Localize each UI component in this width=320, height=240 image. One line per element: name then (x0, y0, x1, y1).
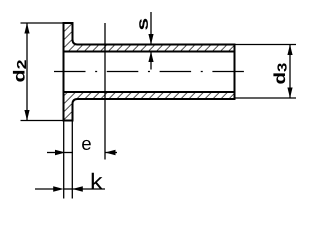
s arrow up (148, 52, 153, 63)
centerline (dash-dot axis) (54, 71, 244, 73)
d3 bottom extension line (236, 97, 297, 99)
flange left face across bore (63, 52, 65, 93)
d3 arrow up (287, 45, 292, 56)
e extension line vertical (104, 23, 106, 160)
d2 dimension line (26, 23, 28, 121)
label k (92, 173, 103, 189)
label s (139, 19, 148, 30)
rivet lower section (tube bottom wall + head flange bottom), hatched (64, 92, 235, 121)
rivet upper section (head flange top + tube top wall), hatched (64, 23, 235, 52)
label e (82, 140, 91, 150)
d2 bottom extension line (21, 120, 64, 122)
d2 arrow down (24, 110, 29, 121)
s arrow down (148, 34, 153, 45)
k dimension line left tail (35, 188, 55, 190)
k arrow left (72, 186, 83, 192)
e dimension line left tail (47, 152, 56, 154)
e arrow right (55, 150, 66, 156)
label d2 (13, 60, 26, 81)
s dimension leader upper (150, 12, 152, 45)
d2 arrow up (24, 23, 29, 34)
d3 dimension line (289, 45, 291, 99)
k right extension line (71, 122, 73, 199)
k dimension line right tail (72, 188, 105, 190)
e dimension line stub (64, 152, 73, 154)
k left extension line (63, 122, 65, 199)
e arrow left (105, 150, 116, 156)
e dimension line right tail (105, 152, 117, 154)
k arrow right (53, 186, 64, 192)
d2 top extension line (21, 22, 64, 24)
d3 top extension line (236, 44, 297, 46)
d3 arrow down (287, 88, 292, 99)
label d3 (273, 63, 286, 83)
k dimension line stub (64, 188, 73, 190)
s dimension leader lower (150, 52, 152, 70)
tube end face line (234, 45, 236, 100)
